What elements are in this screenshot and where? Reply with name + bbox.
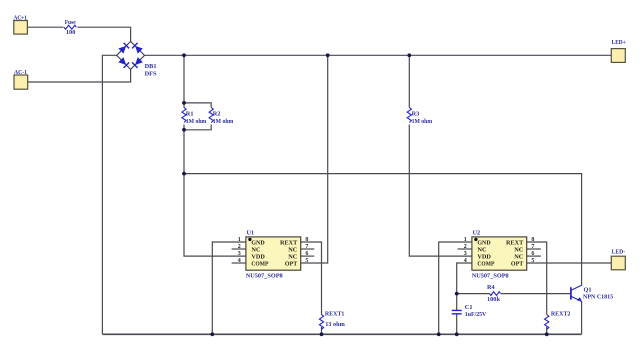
diode D-topleft of DB1 (118, 43, 129, 54)
resistor R1 1M ohm (182, 108, 207, 126)
svg-text:VDD: VDD (477, 254, 491, 261)
svg-text:LED-: LED- (612, 248, 626, 255)
pin names U2 (477, 240, 524, 268)
wire R2 parallel loop (184, 103, 211, 130)
diode D-topright of DB1 (132, 43, 143, 54)
svg-text:C1: C1 (465, 304, 473, 311)
port AC-1 (14, 69, 28, 89)
svg-text:100k: 100k (487, 296, 500, 303)
svg-text:REXT: REXT (280, 240, 298, 247)
svg-text:5: 5 (531, 258, 534, 264)
wire bottom ground rail (102, 333, 581, 335)
wire bridge left vertex to left vertical rail (102, 55, 117, 334)
node junction dots (182, 53, 548, 336)
svg-text:1M ohm: 1M ohm (213, 118, 234, 125)
wire U1 OPT pin5 up to top rail (301, 55, 328, 263)
svg-text:100: 100 (66, 29, 75, 36)
svg-text:1M ohm: 1M ohm (186, 118, 207, 125)
wire R4 line from C1 node to Q1 base (457, 293, 571, 295)
resistor R3 1M ohm (407, 108, 433, 126)
wire U1 GND to ground rail (212, 242, 246, 334)
svg-text:COMP: COMP (477, 261, 494, 268)
wire U1 REXT pin8 to REXT1 to ground rail (301, 242, 322, 334)
svg-text:1: 1 (238, 237, 241, 243)
svg-text:DFS: DFS (145, 70, 157, 77)
svg-text:1uF/25V: 1uF/25V (465, 311, 487, 318)
op-amp U2 NU507_SOP8 (464, 229, 535, 279)
wire U2 pin2 stub (458, 248, 472, 250)
wire U2 REXT pin8 to REXT2 to ground rail (527, 242, 547, 334)
fuse Fuse 100 (64, 19, 76, 36)
svg-text:3: 3 (464, 251, 467, 257)
svg-text:6: 6 (305, 251, 308, 257)
svg-text:3: 3 (238, 251, 241, 257)
wire R1 vertical from top rail to U1 VDD (184, 55, 246, 256)
wire U2 OPT pin5 to LED- (527, 262, 612, 264)
port LED- (611, 248, 625, 269)
port AC+1 (14, 14, 28, 34)
wire U1 pin6 stub (301, 255, 315, 257)
svg-text:REXT1: REXT1 (325, 311, 345, 318)
wire top rail bridge to LED+ (144, 54, 611, 56)
resistor REXT1 13 ohm (319, 311, 345, 330)
wire Q1 emitter to ground rail (581, 301, 583, 334)
svg-text:U1: U1 (247, 229, 255, 236)
svg-text:1M ohm: 1M ohm (412, 118, 433, 125)
svg-text:5: 5 (305, 258, 308, 264)
resistor R4 100k (487, 284, 501, 303)
bridge rectifier DB1 DFS (117, 41, 157, 77)
svg-text:R1: R1 (186, 110, 194, 117)
svg-text:Fuse: Fuse (65, 19, 76, 26)
svg-text:GND: GND (251, 240, 265, 247)
op-amp U1 NU507_SOP8 (238, 229, 309, 279)
svg-text:7: 7 (531, 244, 534, 250)
diode D-bottomleft of DB1 (118, 57, 129, 68)
pin numbers U1 (238, 237, 309, 264)
svg-text:NC: NC (288, 247, 298, 254)
svg-text:REXT2: REXT2 (551, 311, 571, 318)
pin names U1 (251, 240, 298, 268)
svg-text:8: 8 (531, 237, 534, 243)
wire mid rail from R1 bottom to Q1 collector branch (184, 174, 582, 286)
svg-text:4: 4 (238, 258, 241, 264)
wire U1 pin7 stub (301, 248, 315, 250)
svg-text:7: 7 (305, 244, 308, 250)
wire R3 vertical from top rail to U2 VDD (409, 55, 472, 256)
resistor REXT2 (545, 311, 571, 330)
svg-text:R3: R3 (412, 110, 420, 117)
wire AC+1 to fuse to bridge top (28, 27, 131, 41)
svg-text:VDD: VDD (251, 254, 265, 261)
svg-text:NC: NC (288, 254, 298, 261)
svg-text:NC: NC (477, 247, 487, 254)
svg-text:OPT: OPT (285, 261, 298, 268)
wire U2 COMP to C1 to ground rail (457, 263, 472, 334)
svg-text:2: 2 (464, 244, 467, 250)
svg-text:1: 1 (464, 237, 467, 243)
svg-text:AC-1: AC-1 (14, 69, 27, 76)
resistor R2 1M ohm (209, 108, 234, 126)
svg-text:13 ohm: 13 ohm (325, 321, 345, 328)
wire U2 GND to ground rail (439, 242, 472, 334)
svg-text:REXT: REXT (506, 240, 524, 247)
svg-text:NC: NC (514, 254, 524, 261)
capacitor C1 1uF/25V (452, 304, 487, 318)
svg-text:Q1: Q1 (584, 287, 592, 294)
svg-text:DB1: DB1 (145, 63, 157, 70)
svg-text:2: 2 (238, 244, 241, 250)
svg-text:OPT: OPT (511, 261, 524, 268)
wire U1 pin2 stub (232, 248, 246, 250)
svg-text:R2: R2 (213, 110, 221, 117)
svg-text:NC: NC (514, 247, 524, 254)
diode D-bottomright of DB1 (132, 57, 143, 68)
wire U2 pin7 stub (527, 248, 541, 250)
svg-text:U2: U2 (473, 229, 481, 236)
svg-text:NU507_SOP8: NU507_SOP8 (246, 272, 283, 279)
svg-text:6: 6 (531, 251, 534, 257)
wire U2 pin6 stub (527, 255, 541, 257)
svg-text:GND: GND (477, 240, 491, 247)
wire AC-1 to bridge bottom (28, 69, 131, 82)
svg-text:LED+: LED+ (612, 39, 627, 46)
port LED+ (611, 39, 626, 62)
svg-text:R4: R4 (487, 284, 496, 291)
svg-text:NU507_SOP8: NU507_SOP8 (472, 272, 509, 279)
transistor Q1 NPN C1815 (571, 285, 613, 301)
svg-text:NPN C1815: NPN C1815 (583, 294, 613, 301)
pin numbers U2 (464, 237, 535, 264)
svg-text:4: 4 (464, 258, 467, 264)
wire U1 pin4 stub (232, 262, 246, 264)
svg-text:COMP: COMP (251, 261, 268, 268)
svg-text:NC: NC (251, 247, 261, 254)
svg-text:8: 8 (305, 237, 308, 243)
svg-text:AC+1: AC+1 (14, 14, 28, 21)
